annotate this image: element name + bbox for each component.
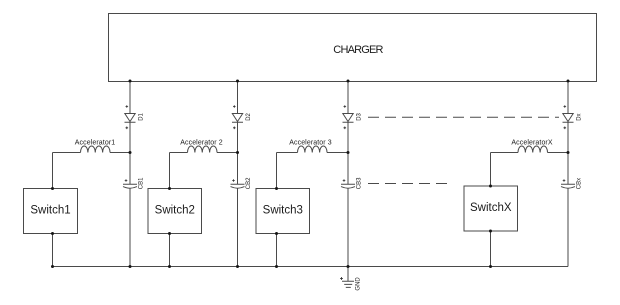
svg-text:D1: D1: [139, 112, 145, 120]
svg-text:Switch1: Switch1: [30, 205, 70, 217]
svg-text:Accelerator 3: Accelerator 3: [289, 139, 332, 146]
svg-text:D3: D3: [357, 112, 363, 120]
svg-text:Accelerator1: Accelerator1: [75, 139, 116, 146]
svg-text:CBx: CBx: [577, 178, 583, 189]
svg-text:CB3: CB3: [357, 177, 363, 189]
svg-text:Switch3: Switch3: [263, 205, 303, 217]
svg-text:D2: D2: [246, 112, 252, 120]
svg-text:SwitchX: SwitchX: [470, 202, 512, 214]
svg-text:AcceleratorX: AcceleratorX: [511, 139, 553, 146]
svg-text:Dx: Dx: [577, 113, 583, 120]
svg-text:Switch2: Switch2: [155, 205, 195, 217]
svg-text:CHARGER: CHARGER: [333, 44, 383, 56]
svg-text:CB1: CB1: [139, 177, 145, 189]
svg-text:GND: GND: [356, 277, 362, 291]
svg-text:CB2: CB2: [246, 177, 252, 189]
svg-text:Accelerator 2: Accelerator 2: [180, 139, 223, 146]
